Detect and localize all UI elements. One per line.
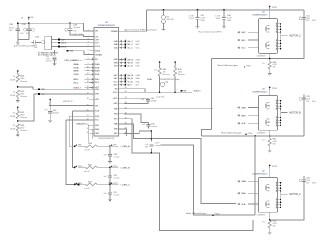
- net label GLA: [238, 203, 240, 205]
- svg-text:GHC: GHC: [241, 32, 246, 34]
- svg-text:5: 5: [276, 182, 277, 184]
- svg-text:21: 21: [87, 115, 89, 117]
- svg-text:INHC: INHC: [95, 79, 100, 81]
- ground below R48: [269, 228, 271, 232]
- svg-text:9: 9: [88, 63, 89, 65]
- svg-text:Resistor: Resistor: [178, 73, 185, 76]
- svg-text:ceramic: ceramic: [151, 126, 157, 128]
- svg-text:PVDD: PVDD: [246, 65, 251, 67]
- net label SHA: [238, 192, 240, 194]
- svg-text:100V: 100V: [227, 20, 232, 22]
- svg-text:PVDD: PVDD: [272, 166, 278, 168]
- wire C46 bridge: [150, 131, 152, 142]
- ground below C48: [222, 26, 226, 29]
- wire SNB riser: [254, 136, 256, 215]
- svg-text:PVDD: PVDD: [215, 214, 220, 216]
- wire SPC long: [124, 108, 212, 110]
- svg-text:ceramic: ceramic: [113, 195, 119, 197]
- svg-text:2: 2: [276, 43, 277, 45]
- wire gnd rail mid: [124, 91, 192, 93]
- resistor R40 divider top: [17, 70, 19, 74]
- resistor R49 sense A row: [74, 145, 76, 147]
- svg-text:SHA: SHA: [135, 77, 140, 80]
- wire divider2 to IC: [18, 94, 94, 121]
- svg-text:6: 6: [276, 103, 277, 105]
- wire right rail seg B: [303, 95, 305, 137]
- svg-text:DRV8323RSRGZR: DRV8323RSRGZR: [98, 138, 115, 140]
- svg-text:GH_A: GH_A: [127, 74, 133, 77]
- diode D1 TVS: [163, 9, 165, 11]
- svg-text:INLC: INLC: [95, 82, 100, 84]
- svg-text:3W: 3W: [273, 144, 276, 146]
- svg-text:SCLK: SCLK: [113, 92, 118, 94]
- power flag PVDD above Q3: [269, 86, 271, 90]
- svg-text:16: 16: [87, 88, 89, 90]
- svg-text:CSD88599Q5DC: CSD88599Q5DC: [252, 173, 268, 175]
- net label SHB: [238, 115, 240, 117]
- svg-text:1%: 1%: [12, 112, 15, 114]
- svg-text:CSD88599: CSD88599: [257, 215, 266, 217]
- svg-text:2: 2: [276, 202, 277, 204]
- svg-text:VCP: VCP: [61, 40, 66, 42]
- svg-text:xxx 0R: xxx 0R: [84, 171, 90, 173]
- svg-text:GHC: GHC: [135, 41, 140, 43]
- wire U2 out 2: [52, 42, 94, 44]
- svg-text:ceramic: ceramic: [155, 145, 161, 147]
- svg-text:SDO: SDO: [114, 84, 118, 86]
- wire PVDD into Q2: [269, 168, 271, 181]
- svg-text:nFAULT: nFAULT: [193, 89, 201, 92]
- svg-text:Ceramic: Ceramic: [73, 26, 80, 29]
- svg-text:GHB: GHB: [241, 107, 246, 109]
- svg-text:Resistor: Resistor: [163, 73, 170, 76]
- svg-text:5: 5: [276, 24, 277, 26]
- svg-text:SH_A: SH_A: [127, 77, 133, 80]
- svg-text:nSCS: nSCS: [113, 98, 118, 100]
- net flag DVDD: [58, 45, 60, 47]
- svg-text:GL_C: GL_C: [127, 47, 133, 49]
- wire shunt B feed: [202, 135, 304, 137]
- IC U3 right pins: [111, 30, 127, 135]
- svg-text:8: 8: [88, 58, 89, 60]
- svg-text:Connect directly to PGND input: Connect directly to PGND input terminal: [125, 28, 157, 31]
- svg-text:Resistor: Resistor: [20, 116, 27, 119]
- svg-text:CPL: CPL: [95, 36, 99, 38]
- capacitor C52 bulk: [302, 17, 306, 19]
- svg-text:SHB: SHB: [135, 63, 140, 65]
- svg-text:GHA: GHA: [135, 74, 140, 77]
- net label GLB: [238, 122, 240, 124]
- svg-text:SPI: SPI: [135, 85, 139, 87]
- svg-text:6: 6: [276, 26, 277, 28]
- wire cap C46 top feed: [124, 131, 151, 133]
- svg-text:I_SEN_A: I_SEN_A: [120, 145, 130, 148]
- ground below R43: [17, 131, 19, 134]
- svg-text:INHA: INHA: [73, 63, 79, 66]
- power flag 3V3 (R44): [159, 61, 161, 65]
- power flag VM (top-left): [28, 16, 30, 20]
- wire PVDD into Q3: [269, 90, 271, 99]
- wire U2 out 3: [52, 45, 94, 47]
- resistor R47 shunt: [268, 138, 271, 146]
- svg-text:MOTOR_B: MOTOR_B: [289, 113, 301, 115]
- svg-text:1: 1: [276, 199, 277, 201]
- net label GHA: [238, 180, 240, 182]
- resistor R45: [174, 65, 176, 68]
- resistor R48 shunt: [268, 220, 271, 228]
- svg-text:X5R: X5R: [79, 34, 83, 36]
- net flag SH_A row: [120, 78, 122, 80]
- svg-text:8: 8: [276, 109, 277, 111]
- svg-text:xxx 0R: xxx 0R: [84, 150, 90, 152]
- svg-text:GL_A: GL_A: [127, 80, 133, 83]
- ground below C38: [17, 39, 19, 42]
- svg-text:100V: 100V: [200, 20, 205, 22]
- svg-text:23: 23: [87, 124, 89, 126]
- svg-text:3: 3: [276, 46, 277, 48]
- capacitor C33: [54, 50, 56, 55]
- svg-text:VDRAIN: VDRAIN: [111, 30, 118, 33]
- ground mid staircase: [124, 129, 127, 133]
- svg-text:INHB: INHB: [73, 71, 79, 73]
- svg-text:0.1uF 16V: 0.1uF 16V: [156, 96, 165, 98]
- net flag SH_C row: [120, 44, 122, 46]
- svg-text:SDI: SDI: [115, 88, 118, 90]
- svg-text:INHC: INHC: [73, 79, 79, 81]
- svg-text:SHA: SHA: [241, 192, 246, 195]
- svg-text:6: 6: [276, 185, 277, 187]
- svg-text:1: 1: [276, 117, 277, 119]
- wire GLA staircase: [151, 139, 236, 204]
- svg-text:CSD88599Q5DC: CSD88599Q5DC: [252, 14, 268, 16]
- svg-text:DRV_ENABLE: DRV_ENABLE: [65, 59, 80, 62]
- ground below R46: [269, 69, 271, 73]
- svg-text:Resistor: Resistor: [20, 129, 27, 132]
- wire R44 down to rail: [159, 76, 161, 92]
- net flag SDO row: [120, 84, 122, 86]
- net flag GH_C row: [120, 40, 122, 42]
- svg-text:SOC: SOC: [95, 120, 100, 122]
- ground below D1: [162, 28, 166, 31]
- svg-text:1%: 1%: [12, 125, 15, 127]
- wire pin stub down a: [88, 125, 94, 142]
- svg-text:GHC: GHC: [114, 75, 119, 77]
- svg-text:4: 4: [276, 48, 277, 50]
- svg-text:100V: 100V: [216, 18, 221, 20]
- svg-text:INLB: INLB: [74, 74, 79, 76]
- svg-text:Motor Differential gain: Motor Differential gain: [221, 131, 242, 134]
- node Q3 phase bus: [280, 101, 282, 126]
- svg-text:I_SEN_C: I_SEN_C: [120, 184, 130, 186]
- wire Q3 source down: [269, 130, 271, 138]
- wire right rail seg A: [270, 176, 304, 220]
- svg-text:GLA: GLA: [135, 80, 140, 83]
- net label SHC: [238, 39, 240, 41]
- net flag GL_C row: [120, 47, 122, 49]
- wire SPA step: [124, 124, 151, 139]
- net flag GH_B row: [120, 59, 122, 61]
- net flag GH_A row: [120, 74, 122, 76]
- wire phase output MOTOR_C: [281, 35, 288, 37]
- net label GHC: [238, 31, 240, 33]
- svg-text:CSD88599: CSD88599: [257, 133, 266, 135]
- svg-text:PVDD: PVDD: [272, 88, 278, 90]
- svg-text:GLB: GLB: [241, 123, 246, 125]
- svg-text:5: 5: [276, 100, 277, 102]
- wire VDRAIN to top rail: [124, 10, 146, 31]
- svg-text:1/10W: 1/10W: [10, 129, 16, 131]
- IC U3 left pins: [87, 30, 103, 136]
- wire pwr to pin: [50, 102, 94, 105]
- svg-text:1%: 1%: [262, 63, 265, 65]
- wire SPC riser: [211, 59, 213, 130]
- wire SPB jog: [202, 130, 212, 136]
- transistor Q5 small: [160, 82, 164, 86]
- wire U2 out 1: [52, 39, 94, 41]
- svg-text:DRV8323RS SPI config: DRV8323RS SPI config: [160, 79, 179, 81]
- svg-text:10: 10: [87, 66, 89, 68]
- net flag VM mid: [181, 90, 183, 92]
- node Q2 phase bus: [280, 183, 282, 208]
- node Q4 phase bus: [280, 24, 282, 49]
- ground below C33: [53, 63, 57, 66]
- svg-text:8: 8: [276, 191, 277, 193]
- junction R42/R43: [17, 120, 19, 122]
- net label GLC: [238, 47, 240, 49]
- svg-text:4: 4: [276, 125, 277, 127]
- svg-text:DCAL: DCAL: [147, 78, 152, 81]
- svg-text:GH_B: GH_B: [127, 59, 133, 61]
- svg-text:GLC: GLC: [241, 48, 246, 50]
- svg-text:1%: 1%: [154, 69, 157, 71]
- wire pin row b: [69, 115, 94, 117]
- svg-text:GH_C: GH_C: [127, 41, 133, 43]
- svg-text:Resistor: Resistor: [20, 80, 27, 83]
- wire VM rail top-left: [18, 22, 70, 24]
- net flag SH_B row: [120, 62, 122, 64]
- capacitor C44: [124, 97, 148, 99]
- resistor R51 sense C row: [74, 184, 76, 186]
- capacitor C54 bulk: [302, 180, 306, 182]
- wire SNA step: [124, 119, 253, 231]
- capacitor C46: [149, 144, 153, 146]
- capacitor C48: [223, 9, 225, 11]
- svg-text:VM: VM: [183, 90, 186, 92]
- wire SNB lower: [161, 145, 256, 215]
- junction C40 top: [69, 22, 71, 24]
- wire divider1 to IC: [18, 87, 94, 89]
- svg-text:22: 22: [87, 119, 89, 121]
- wire sense drop c: [66, 120, 78, 184]
- svg-text:GL_B: GL_B: [127, 66, 133, 68]
- svg-text:CSD88599: CSD88599: [257, 56, 266, 58]
- wire PVDD into Q4: [269, 9, 271, 22]
- svg-text:INLA: INLA: [74, 66, 79, 69]
- svg-text:1: 1: [276, 40, 277, 42]
- resistor R44: [159, 65, 161, 68]
- svg-text:12: 12: [87, 73, 89, 75]
- wire pin stub down b: [92, 129, 94, 139]
- wire R45 down to rail: [174, 76, 176, 92]
- wire sense drop a: [72, 111, 74, 167]
- svg-text:PVDD: PVDD: [272, 7, 278, 9]
- svg-text:1%: 1%: [12, 91, 15, 93]
- resistor R46 shunt: [268, 61, 271, 69]
- wire Q4 source down: [269, 53, 271, 61]
- svg-text:1/10W: 1/10W: [10, 79, 16, 81]
- svg-text:GLC: GLC: [135, 47, 140, 49]
- capacitor C45: [124, 114, 149, 122]
- svg-text:GHB: GHB: [135, 59, 140, 61]
- wire phase output MOTOR_B: [281, 112, 288, 114]
- net flag VGLS: [58, 42, 60, 44]
- svg-text:X5R: X5R: [34, 47, 38, 49]
- wire pin row a: [72, 110, 94, 112]
- net flag VCP: [58, 39, 60, 41]
- power flag VM mid: [49, 98, 51, 102]
- svg-text:3: 3: [88, 38, 89, 40]
- net flag GL_B row: [120, 65, 122, 67]
- svg-text:1000pF: 1000pF: [53, 112, 60, 114]
- svg-text:GLA: GLA: [241, 203, 246, 206]
- svg-text:19: 19: [87, 104, 89, 106]
- svg-text:Place resistors close to FETs: Place resistors close to FETs: [198, 31, 221, 34]
- wire shunt C sense: [255, 58, 270, 60]
- svg-text:100V: 100V: [189, 18, 194, 20]
- capacitor C53 bulk: [302, 98, 306, 100]
- wire C38 C39 bottom loop: [18, 38, 29, 40]
- svg-text:DVDD: DVDD: [95, 50, 101, 52]
- svg-text:15: 15: [87, 86, 89, 88]
- svg-text:25: 25: [87, 132, 89, 134]
- svg-text:1: 1: [88, 30, 89, 32]
- capacitor C40: [69, 23, 71, 29]
- net flag GL_A row: [120, 81, 122, 83]
- svg-text:13: 13: [87, 78, 89, 80]
- ground below C47: [196, 26, 200, 29]
- svg-text:10%: 10%: [20, 33, 24, 35]
- svg-text:2200pF: 2200pF: [150, 100, 157, 102]
- svg-text:1/10W: 1/10W: [10, 95, 16, 97]
- svg-text:MOTOR_C: MOTOR_C: [289, 36, 301, 38]
- svg-text:1%: 1%: [12, 76, 15, 78]
- svg-text:17: 17: [87, 93, 89, 95]
- wire top PVDD rail: [146, 9, 304, 11]
- ground below C34: [48, 119, 52, 122]
- svg-text:1%: 1%: [262, 222, 265, 224]
- svg-text:7: 7: [88, 53, 89, 55]
- svg-text:Ceramic: Ceramic: [46, 60, 52, 63]
- svg-text:TxIACBxPxx: TxIACBxPxx: [76, 122, 87, 125]
- wire right rail down: [255, 10, 304, 59]
- svg-text:DVDD: DVDD: [61, 46, 67, 48]
- svg-text:4: 4: [88, 41, 89, 43]
- svg-text:B10-100: B10-100: [167, 19, 174, 21]
- svg-text:GND: GND: [114, 103, 119, 105]
- svg-text:20: 20: [87, 110, 89, 112]
- svg-text:SH_B: SH_B: [127, 63, 133, 65]
- svg-text:GND: GND: [95, 133, 100, 135]
- resistor R50 sense B row: [74, 167, 76, 169]
- svg-text:VGLS: VGLS: [61, 43, 67, 45]
- svg-text:SHC: SHC: [241, 40, 246, 42]
- resistor R42 divider top: [17, 106, 19, 110]
- svg-text:7: 7: [276, 29, 277, 31]
- ground below R47: [269, 146, 271, 150]
- svg-text:8: 8: [276, 32, 277, 34]
- svg-text:3W: 3W: [273, 67, 276, 69]
- svg-text:Motor Differential gain: Motor Differential gain: [186, 212, 207, 215]
- junction C38 top: [28, 22, 30, 24]
- svg-text:7: 7: [276, 106, 277, 108]
- svg-text:ceramic: ceramic: [113, 156, 119, 158]
- svg-text:1%: 1%: [262, 140, 265, 142]
- wire phase output MOTOR_A: [281, 193, 288, 195]
- junction R40/R41: [17, 86, 19, 88]
- net label GHB: [238, 107, 240, 109]
- svg-text:3W: 3W: [273, 226, 276, 228]
- svg-text:18: 18: [87, 98, 89, 100]
- svg-text:CSD88599Q5DC: CSD88599Q5DC: [252, 91, 268, 93]
- svg-text:INLC: INLC: [74, 82, 79, 84]
- wire shunt C feed: [212, 58, 304, 60]
- resistor R43 divider bottom: [16, 124, 19, 131]
- svg-text:14: 14: [87, 81, 89, 83]
- svg-text:VDRAIN: VDRAIN: [95, 53, 102, 56]
- svg-text:2: 2: [88, 35, 89, 37]
- svg-text:I_SEN_B: I_SEN_B: [120, 167, 130, 169]
- svg-text:GLB: GLB: [135, 66, 140, 68]
- svg-text:VGLS: VGLS: [95, 46, 101, 48]
- net flag VPROP2: [38, 93, 40, 95]
- svg-text:6: 6: [88, 49, 89, 51]
- svg-text:3: 3: [276, 123, 277, 125]
- svg-text:DRV8323RSRGZR: DRV8323RSRGZR: [98, 25, 116, 27]
- power flag PVDD above Q2: [269, 164, 271, 168]
- net flag VPROP1: [38, 88, 40, 90]
- svg-text:PVDD: PVDD: [248, 133, 253, 135]
- svg-text:Motor Differential gain: Motor Differential gain: [218, 64, 239, 67]
- power flag PVDD above Q4: [269, 5, 271, 9]
- svg-text:ceramic: ceramic: [113, 178, 119, 180]
- svg-text:MOTOR_A: MOTOR_A: [289, 193, 301, 196]
- svg-text:3: 3: [276, 205, 277, 207]
- svg-text:1/10W: 1/10W: [10, 116, 16, 118]
- svg-text:xxx 0R: xxx 0R: [84, 188, 90, 190]
- svg-text:24: 24: [87, 128, 89, 130]
- wire sense drop b: [69, 116, 75, 146]
- regulator U2 small box: [45, 36, 52, 50]
- power flag 3V3 (R45): [174, 61, 176, 65]
- svg-text:4: 4: [276, 207, 277, 209]
- net flag DRV_ENABLE wire: [66, 50, 68, 52]
- svg-text:11: 11: [87, 70, 89, 72]
- svg-text:VM 6V PU: VM 6V PU: [63, 101, 73, 103]
- capacitor C34: [49, 106, 51, 112]
- ground below R41: [17, 97, 19, 99]
- svg-text:10%: 10%: [73, 34, 77, 36]
- svg-text:SH_C: SH_C: [127, 44, 133, 46]
- capacitor C47: [197, 9, 199, 11]
- svg-text:7: 7: [276, 188, 277, 190]
- svg-text:SDO: SDO: [127, 85, 132, 87]
- svg-text:Resistor: Resistor: [20, 95, 27, 98]
- svg-text:2: 2: [276, 120, 277, 122]
- resistor R41 divider bottom: [16, 90, 19, 97]
- svg-text:SHC: SHC: [135, 44, 140, 46]
- svg-text:SHB: SHB: [241, 115, 246, 117]
- svg-text:5: 5: [88, 45, 89, 47]
